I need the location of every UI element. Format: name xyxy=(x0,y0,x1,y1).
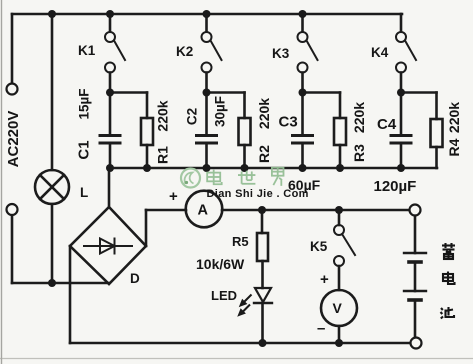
svg-text:220k: 220k xyxy=(446,102,462,133)
svg-text:10k/6W: 10k/6W xyxy=(196,256,245,272)
svg-text:LED: LED xyxy=(211,288,237,303)
svg-text:220k: 220k xyxy=(351,102,367,133)
svg-text:220k: 220k xyxy=(256,98,272,129)
svg-text:K1: K1 xyxy=(78,43,96,58)
svg-text:–: – xyxy=(317,320,325,337)
svg-text:K3: K3 xyxy=(272,46,290,61)
svg-text:R4: R4 xyxy=(446,138,462,156)
svg-text:220k: 220k xyxy=(155,100,171,131)
svg-text:C1: C1 xyxy=(76,140,93,159)
svg-text:D: D xyxy=(130,271,140,286)
svg-text:30µF: 30µF xyxy=(213,96,228,127)
svg-text:R5: R5 xyxy=(232,234,249,249)
svg-text:+: + xyxy=(169,188,178,205)
svg-text:+: + xyxy=(320,271,329,288)
svg-text:C4: C4 xyxy=(377,116,397,133)
svg-text:L: L xyxy=(80,185,88,200)
svg-text:C2: C2 xyxy=(185,108,200,125)
svg-text:K5: K5 xyxy=(310,239,328,254)
svg-text:C3: C3 xyxy=(279,114,298,131)
svg-text:V: V xyxy=(333,300,343,316)
svg-text:R2: R2 xyxy=(256,145,272,163)
svg-text:60µF: 60µF xyxy=(288,177,321,193)
svg-text:K4: K4 xyxy=(371,45,389,60)
svg-text:15µF: 15µF xyxy=(77,88,92,119)
svg-text:120µF: 120µF xyxy=(374,178,417,195)
svg-text:A: A xyxy=(198,203,209,219)
svg-text:AC220V: AC220V xyxy=(5,111,22,168)
svg-text:R3: R3 xyxy=(351,144,367,162)
svg-text:R1: R1 xyxy=(155,146,171,164)
svg-text:K2: K2 xyxy=(176,44,193,59)
